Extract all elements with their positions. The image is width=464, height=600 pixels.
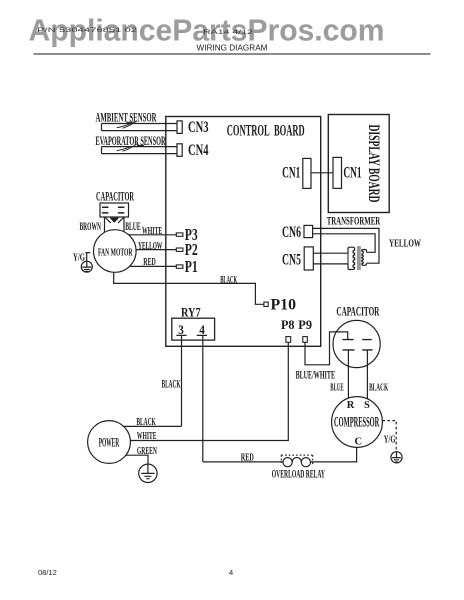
svg-text:FAN MOTOR: FAN MOTOR bbox=[98, 246, 133, 258]
svg-text:Y/G: Y/G bbox=[384, 435, 396, 446]
svg-text:4: 4 bbox=[199, 322, 205, 337]
svg-text:BLACK: BLACK bbox=[220, 275, 237, 286]
svg-text:BLACK: BLACK bbox=[369, 382, 388, 393]
svg-text:P8: P8 bbox=[281, 317, 295, 332]
svg-text:CN1: CN1 bbox=[282, 164, 300, 181]
svg-text:GREEN: GREEN bbox=[137, 445, 157, 457]
svg-text:4: 4 bbox=[229, 568, 233, 577]
svg-text:CN1: CN1 bbox=[343, 164, 361, 181]
svg-text:BLACK: BLACK bbox=[162, 378, 181, 390]
svg-text:Y/G: Y/G bbox=[73, 251, 85, 263]
svg-text:BLUE/WHITE: BLUE/WHITE bbox=[296, 369, 336, 381]
svg-text:TRANSFORMER: TRANSFORMER bbox=[327, 215, 381, 227]
svg-text:P1: P1 bbox=[185, 257, 198, 276]
svg-text:CAPACITOR: CAPACITOR bbox=[336, 305, 379, 319]
svg-text:WIRING DIAGRAM: WIRING DIAGRAM bbox=[197, 44, 268, 53]
svg-text:3: 3 bbox=[178, 322, 184, 337]
svg-text:BLUE: BLUE bbox=[330, 382, 343, 393]
svg-text:OVERLOAD RELAY: OVERLOAD RELAY bbox=[272, 469, 326, 481]
svg-text:WHITE: WHITE bbox=[142, 225, 162, 237]
svg-text:YELLOW: YELLOW bbox=[389, 239, 421, 250]
svg-text:DISPLAY BOARD: DISPLAY BOARD bbox=[365, 125, 382, 203]
svg-text:08/12: 08/12 bbox=[38, 568, 57, 577]
svg-text:CN4: CN4 bbox=[188, 142, 209, 159]
svg-text:BLACK: BLACK bbox=[136, 416, 156, 428]
svg-text:RED: RED bbox=[143, 256, 156, 268]
svg-text:POWER: POWER bbox=[99, 434, 120, 449]
svg-text:RED: RED bbox=[241, 453, 254, 464]
svg-text:C: C bbox=[355, 437, 363, 448]
svg-text:CN6: CN6 bbox=[282, 224, 301, 241]
svg-text:P10: P10 bbox=[271, 297, 297, 314]
svg-text:COMPRESSOR: COMPRESSOR bbox=[334, 414, 379, 430]
svg-text:P/N 5304476851 02: P/N 5304476851 02 bbox=[37, 27, 137, 34]
svg-text:RA14 4/12: RA14 4/12 bbox=[203, 29, 253, 36]
svg-text:YELLOW: YELLOW bbox=[138, 240, 162, 252]
svg-text:CAPACITOR: CAPACITOR bbox=[96, 190, 134, 204]
svg-text:CONTROL BOARD: CONTROL BOARD bbox=[227, 123, 305, 140]
svg-text:CN3: CN3 bbox=[188, 119, 209, 136]
svg-text:RY7: RY7 bbox=[181, 305, 201, 319]
svg-text:S: S bbox=[364, 400, 370, 411]
svg-text:R: R bbox=[347, 400, 355, 411]
svg-text:P9: P9 bbox=[298, 317, 312, 332]
svg-text:WHITE: WHITE bbox=[137, 430, 157, 442]
svg-text:BROWN: BROWN bbox=[80, 221, 102, 233]
svg-text:AMBIENT SENSOR: AMBIENT SENSOR bbox=[96, 110, 157, 124]
svg-text:EVAPORATOR SENSOR: EVAPORATOR SENSOR bbox=[96, 134, 166, 148]
svg-text:BLUE: BLUE bbox=[125, 221, 141, 233]
svg-text:CN5: CN5 bbox=[282, 251, 301, 268]
